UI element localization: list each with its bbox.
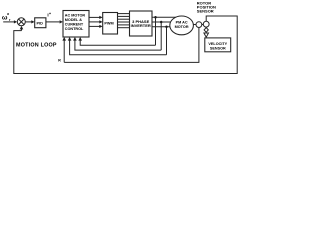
wire velocity sensor shaft coupling bbox=[205, 26, 207, 29]
wire phase A current feedback bbox=[80, 40, 155, 45]
junction dot phase A tap bbox=[154, 16, 157, 19]
svg-text:INVERTER: INVERTER bbox=[131, 23, 151, 28]
wire gate signal 4 bbox=[118, 21, 130, 23]
shaft coupling diamond bbox=[204, 28, 208, 33]
PM AC motor M1 bbox=[170, 16, 194, 35]
PWM block U2 bbox=[103, 13, 118, 35]
wire current tap B drop bbox=[160, 22, 162, 50]
wire gate signal 5 bbox=[118, 24, 130, 26]
rotor position sensor label bbox=[197, 1, 216, 14]
velocity sensor coupling circle bbox=[203, 21, 209, 27]
wire phase B current feedback bbox=[75, 40, 161, 50]
svg-text:CURRENT: CURRENT bbox=[65, 22, 84, 26]
svg-text:*: * bbox=[49, 12, 51, 17]
wire summing junction to PID bbox=[25, 21, 31, 23]
wire phase c reference to PWM bbox=[89, 25, 100, 27]
wire gate signal 2 bbox=[118, 15, 130, 17]
rotor position sensor coupling circle bbox=[196, 22, 202, 28]
node speed reference label ω*r bbox=[2, 13, 11, 22]
wire gate signal 3 bbox=[118, 18, 130, 20]
svg-text:SENSOR: SENSOR bbox=[197, 9, 214, 14]
AC motor model and current control block U1 bbox=[63, 11, 89, 38]
wire rotor position feedback from coupling down bbox=[64, 28, 199, 63]
wire motor shaft to sensors bbox=[192, 24, 207, 26]
wire inverter phase C to motor bbox=[152, 26, 180, 28]
summing junction S1 bbox=[17, 18, 25, 26]
wire current tap A drop bbox=[155, 17, 157, 45]
wire phase C current feedback bbox=[70, 40, 167, 55]
arrow into AC motor model block bbox=[60, 20, 63, 23]
wire phase a reference to PWM bbox=[89, 16, 100, 18]
wire rotor position feedback up into control block bbox=[63, 40, 65, 62]
arrow into summing junction bbox=[14, 20, 17, 23]
wire velocity feedback riser to summing junction bbox=[21, 29, 23, 31]
junction dot phase B tap bbox=[160, 21, 163, 24]
svg-text:PID: PID bbox=[37, 22, 44, 26]
svg-text:MODEL &: MODEL & bbox=[65, 18, 83, 22]
svg-text:SENSOR: SENSOR bbox=[210, 47, 226, 51]
wire PID to AC motor model bbox=[46, 21, 60, 23]
wire gate signal 6 bbox=[118, 27, 130, 29]
arrow phase C current into control block bbox=[68, 37, 72, 41]
svg-text:MOTOR: MOTOR bbox=[175, 25, 189, 29]
junction dot phase C tap bbox=[165, 26, 168, 29]
wire speed reference input bbox=[3, 21, 14, 23]
wire current tap C drop bbox=[166, 27, 168, 55]
arrow phase A current into control block bbox=[78, 37, 82, 41]
arrow into PID bbox=[31, 20, 34, 23]
arrow phase a into PWM bbox=[99, 16, 102, 19]
wire velocity signal up from coupling bbox=[14, 16, 237, 74]
node torque current reference label I* bbox=[47, 12, 51, 18]
arrow phase c into PWM bbox=[99, 25, 102, 28]
velocity sensor block U4 bbox=[205, 38, 231, 52]
shaft coupling arrow into velocity sensor bbox=[204, 33, 209, 37]
svg-text:VELOCITY: VELOCITY bbox=[208, 42, 227, 46]
svg-text:AC MOTOR: AC MOTOR bbox=[65, 14, 86, 18]
svg-text:R: R bbox=[58, 58, 61, 62]
svg-text:CONTROL: CONTROL bbox=[65, 27, 84, 31]
3 phase inverter block U3 bbox=[130, 11, 153, 36]
wire inverter phase A to motor bbox=[152, 16, 180, 18]
arrow phase b into PWM bbox=[99, 20, 102, 23]
svg-text:MOTION LOOP: MOTION LOOP bbox=[16, 42, 57, 48]
arrow rotor position into control block bbox=[62, 37, 66, 41]
arrow velocity feedback into summing junction bbox=[20, 26, 24, 30]
arrow phase B current into control block bbox=[73, 37, 77, 41]
wire inverter phase B to motor bbox=[152, 21, 180, 23]
wire phase b reference to PWM bbox=[89, 21, 100, 23]
svg-text:r: r bbox=[9, 18, 11, 22]
svg-text:PWM: PWM bbox=[104, 22, 113, 26]
PID controller box bbox=[35, 18, 46, 28]
svg-text:PM AC: PM AC bbox=[176, 21, 188, 25]
wire gate signal 1 bbox=[118, 13, 130, 15]
